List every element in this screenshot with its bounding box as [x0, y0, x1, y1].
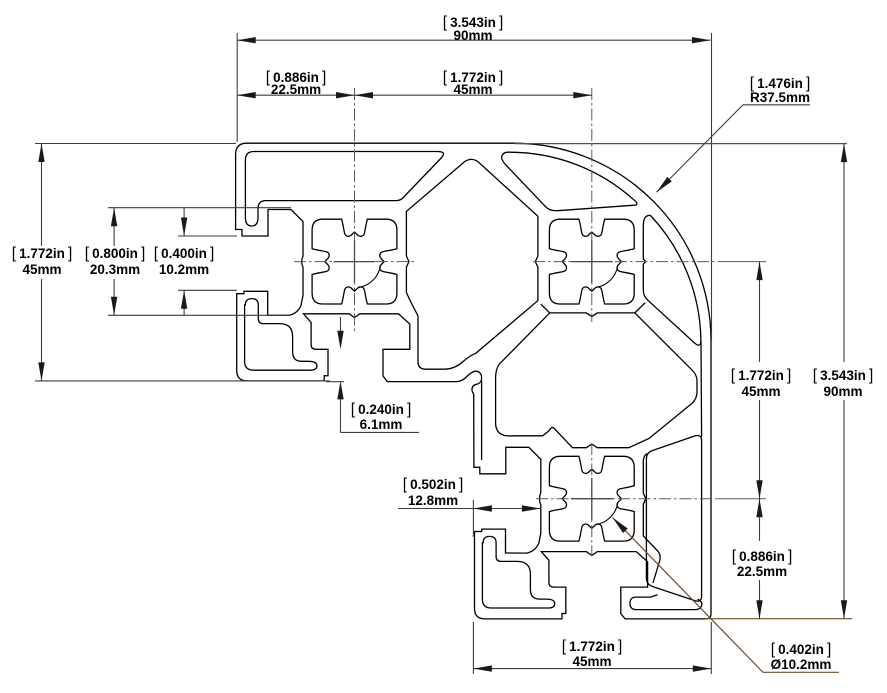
dimension 20.3mm extension top — [108, 207, 291, 209]
cell3 T-slot cavity — [549, 456, 634, 541]
cell1 T-slot bore arc — [358, 265, 380, 287]
cell3 horizontal centerline — [536, 498, 718, 500]
dimension 90mm right arrows — [841, 144, 847, 163]
cell2 center mark — [571, 241, 613, 283]
svg-text:20.3mm: 20.3mm — [90, 262, 140, 277]
svg-text:22.5mm: 22.5mm — [737, 564, 787, 579]
cell1 T-slot cavity — [312, 219, 397, 304]
dimension 45mm bottom line — [473, 668, 711, 670]
dimension 22.5mm arrows — [237, 92, 256, 98]
dimension 45mm right line — [759, 262, 761, 362]
dimension 22.5mm right arrows — [756, 499, 762, 518]
dimension 90mm right extension bottom — [705, 618, 852, 620]
svg-text:[ 0.402in ]: [ 0.402in ] — [771, 641, 832, 658]
dimension 45mm bottom extension right — [710, 622, 712, 674]
dimension 6.1mm extension — [326, 381, 344, 383]
dimension 20.3mm arrows — [111, 208, 117, 227]
cell3 right wall — [643, 454, 660, 584]
channel right of bottom slot — [630, 595, 702, 610]
dimension 22.5mm right line — [759, 499, 761, 541]
dimension 90mm right line — [843, 144, 845, 362]
svg-text:45mm: 45mm — [741, 384, 780, 399]
svg-text:[ 0.400in ]: [ 0.400in ] — [154, 245, 215, 262]
svg-text:[ 1.772in ]: [ 1.772in ] — [562, 638, 623, 655]
svg-text:45mm: 45mm — [22, 262, 61, 277]
svg-text:[ 0.240in ]: [ 0.240in ] — [351, 401, 412, 418]
dimension 45mm left arrows — [38, 144, 44, 163]
cell1 vertical centerline — [354, 88, 356, 332]
cavity right of cell2 — [643, 215, 701, 345]
svg-text:45mm: 45mm — [572, 654, 611, 669]
dimension 90mm top extension right — [711, 33, 713, 341]
cell1 horizontal centerline — [294, 261, 416, 263]
dimension 20.3mm line — [113, 208, 115, 246]
cell3 vertical centerline — [591, 443, 593, 556]
dimension 12.8mm arrows — [473, 505, 492, 511]
cavity between cells — [406, 159, 538, 369]
cell2 T-slot cavity — [549, 219, 634, 304]
svg-text:6.1mm: 6.1mm — [360, 417, 403, 432]
dimension 45mm left extension bottom — [35, 380, 330, 382]
dimension 20.3mm extension bottom — [108, 314, 291, 316]
profile outer boundary — [236, 143, 711, 619]
svg-text:[ 1.772in ]: [ 1.772in ] — [12, 245, 73, 262]
dimension 10.2mm line — [183, 208, 185, 236]
dimension 22.5mm top line — [237, 94, 354, 96]
svg-text:45mm: 45mm — [453, 82, 492, 97]
dimension 45mm right arrows — [756, 262, 762, 281]
cavity top-left — [245, 152, 443, 227]
right wall inner line — [700, 341, 703, 437]
cell2 bottom-right chamfer — [635, 303, 646, 313]
corner bracket channel top-left — [245, 299, 317, 371]
svg-text:[ 3.543in ]: [ 3.543in ] — [813, 367, 874, 384]
corner slot relief line — [481, 380, 483, 460]
svg-text:22.5mm: 22.5mm — [271, 82, 321, 97]
diameter 10.2 arrow — [613, 518, 628, 534]
dimension 90mm top line — [237, 39, 710, 41]
cavity along corner radius — [502, 152, 637, 211]
svg-text:90mm: 90mm — [823, 384, 862, 399]
dimension 6.1mm arrows — [337, 331, 343, 350]
svg-text:[ 0.800in ]: [ 0.800in ] — [85, 245, 146, 262]
svg-text:[ 0.886in ]: [ 0.886in ] — [732, 548, 793, 565]
radius R37.5 arrow — [657, 177, 672, 192]
svg-text:[ 0.502in ]: [ 0.502in ] — [403, 476, 464, 493]
svg-text:10.2mm: 10.2mm — [159, 262, 209, 277]
cavity right of cell3 — [646, 435, 701, 601]
cell2 vertical centerline — [591, 88, 593, 322]
dimension 45mm left extension top — [35, 143, 236, 145]
svg-text:Ø10.2mm: Ø10.2mm — [771, 657, 832, 672]
dimension 45mm top line — [355, 94, 592, 96]
cell3 T-slot bore arc — [596, 502, 618, 524]
svg-text:R37.5mm: R37.5mm — [750, 90, 810, 105]
dimension 45mm bottom arrows — [473, 665, 492, 671]
diameter 10.2 leader — [613, 518, 764, 673]
corner bracket channel bottom — [482, 536, 554, 608]
dimension 45mm bottom extension left — [472, 622, 474, 674]
cell2 T-slot bore arc — [596, 265, 618, 287]
dimension 10.2mm extension top — [178, 235, 237, 237]
dimension 45mm top arrows — [355, 92, 374, 98]
radius R37.5 leader — [657, 105, 744, 192]
dimension 10.2mm extension bottom — [178, 289, 237, 291]
dimension 12.8mm line — [398, 508, 540, 510]
cavity between cell2 and cell3 with corner slot — [496, 313, 697, 448]
cell2 bottom-left chamfer — [541, 304, 550, 313]
cell2 horizontal centerline — [533, 261, 718, 263]
dimension 12.8mm extension — [472, 500, 474, 537]
cell3 center mark — [571, 478, 613, 520]
dimension 90mm right extension top — [515, 143, 847, 145]
dimension 45mm left line — [41, 144, 43, 247]
svg-text:90mm: 90mm — [453, 28, 492, 43]
cell1 center mark — [334, 241, 376, 283]
svg-text:12.8mm: 12.8mm — [408, 493, 458, 508]
dimension 90mm top extension left — [236, 33, 238, 142]
svg-text:[ 1.772in ]: [ 1.772in ] — [731, 367, 792, 384]
dimension 6.1mm arrow lines — [340, 317, 342, 332]
dimension 90mm top arrows — [237, 37, 256, 43]
dimension 10.2mm arrows — [181, 218, 187, 237]
